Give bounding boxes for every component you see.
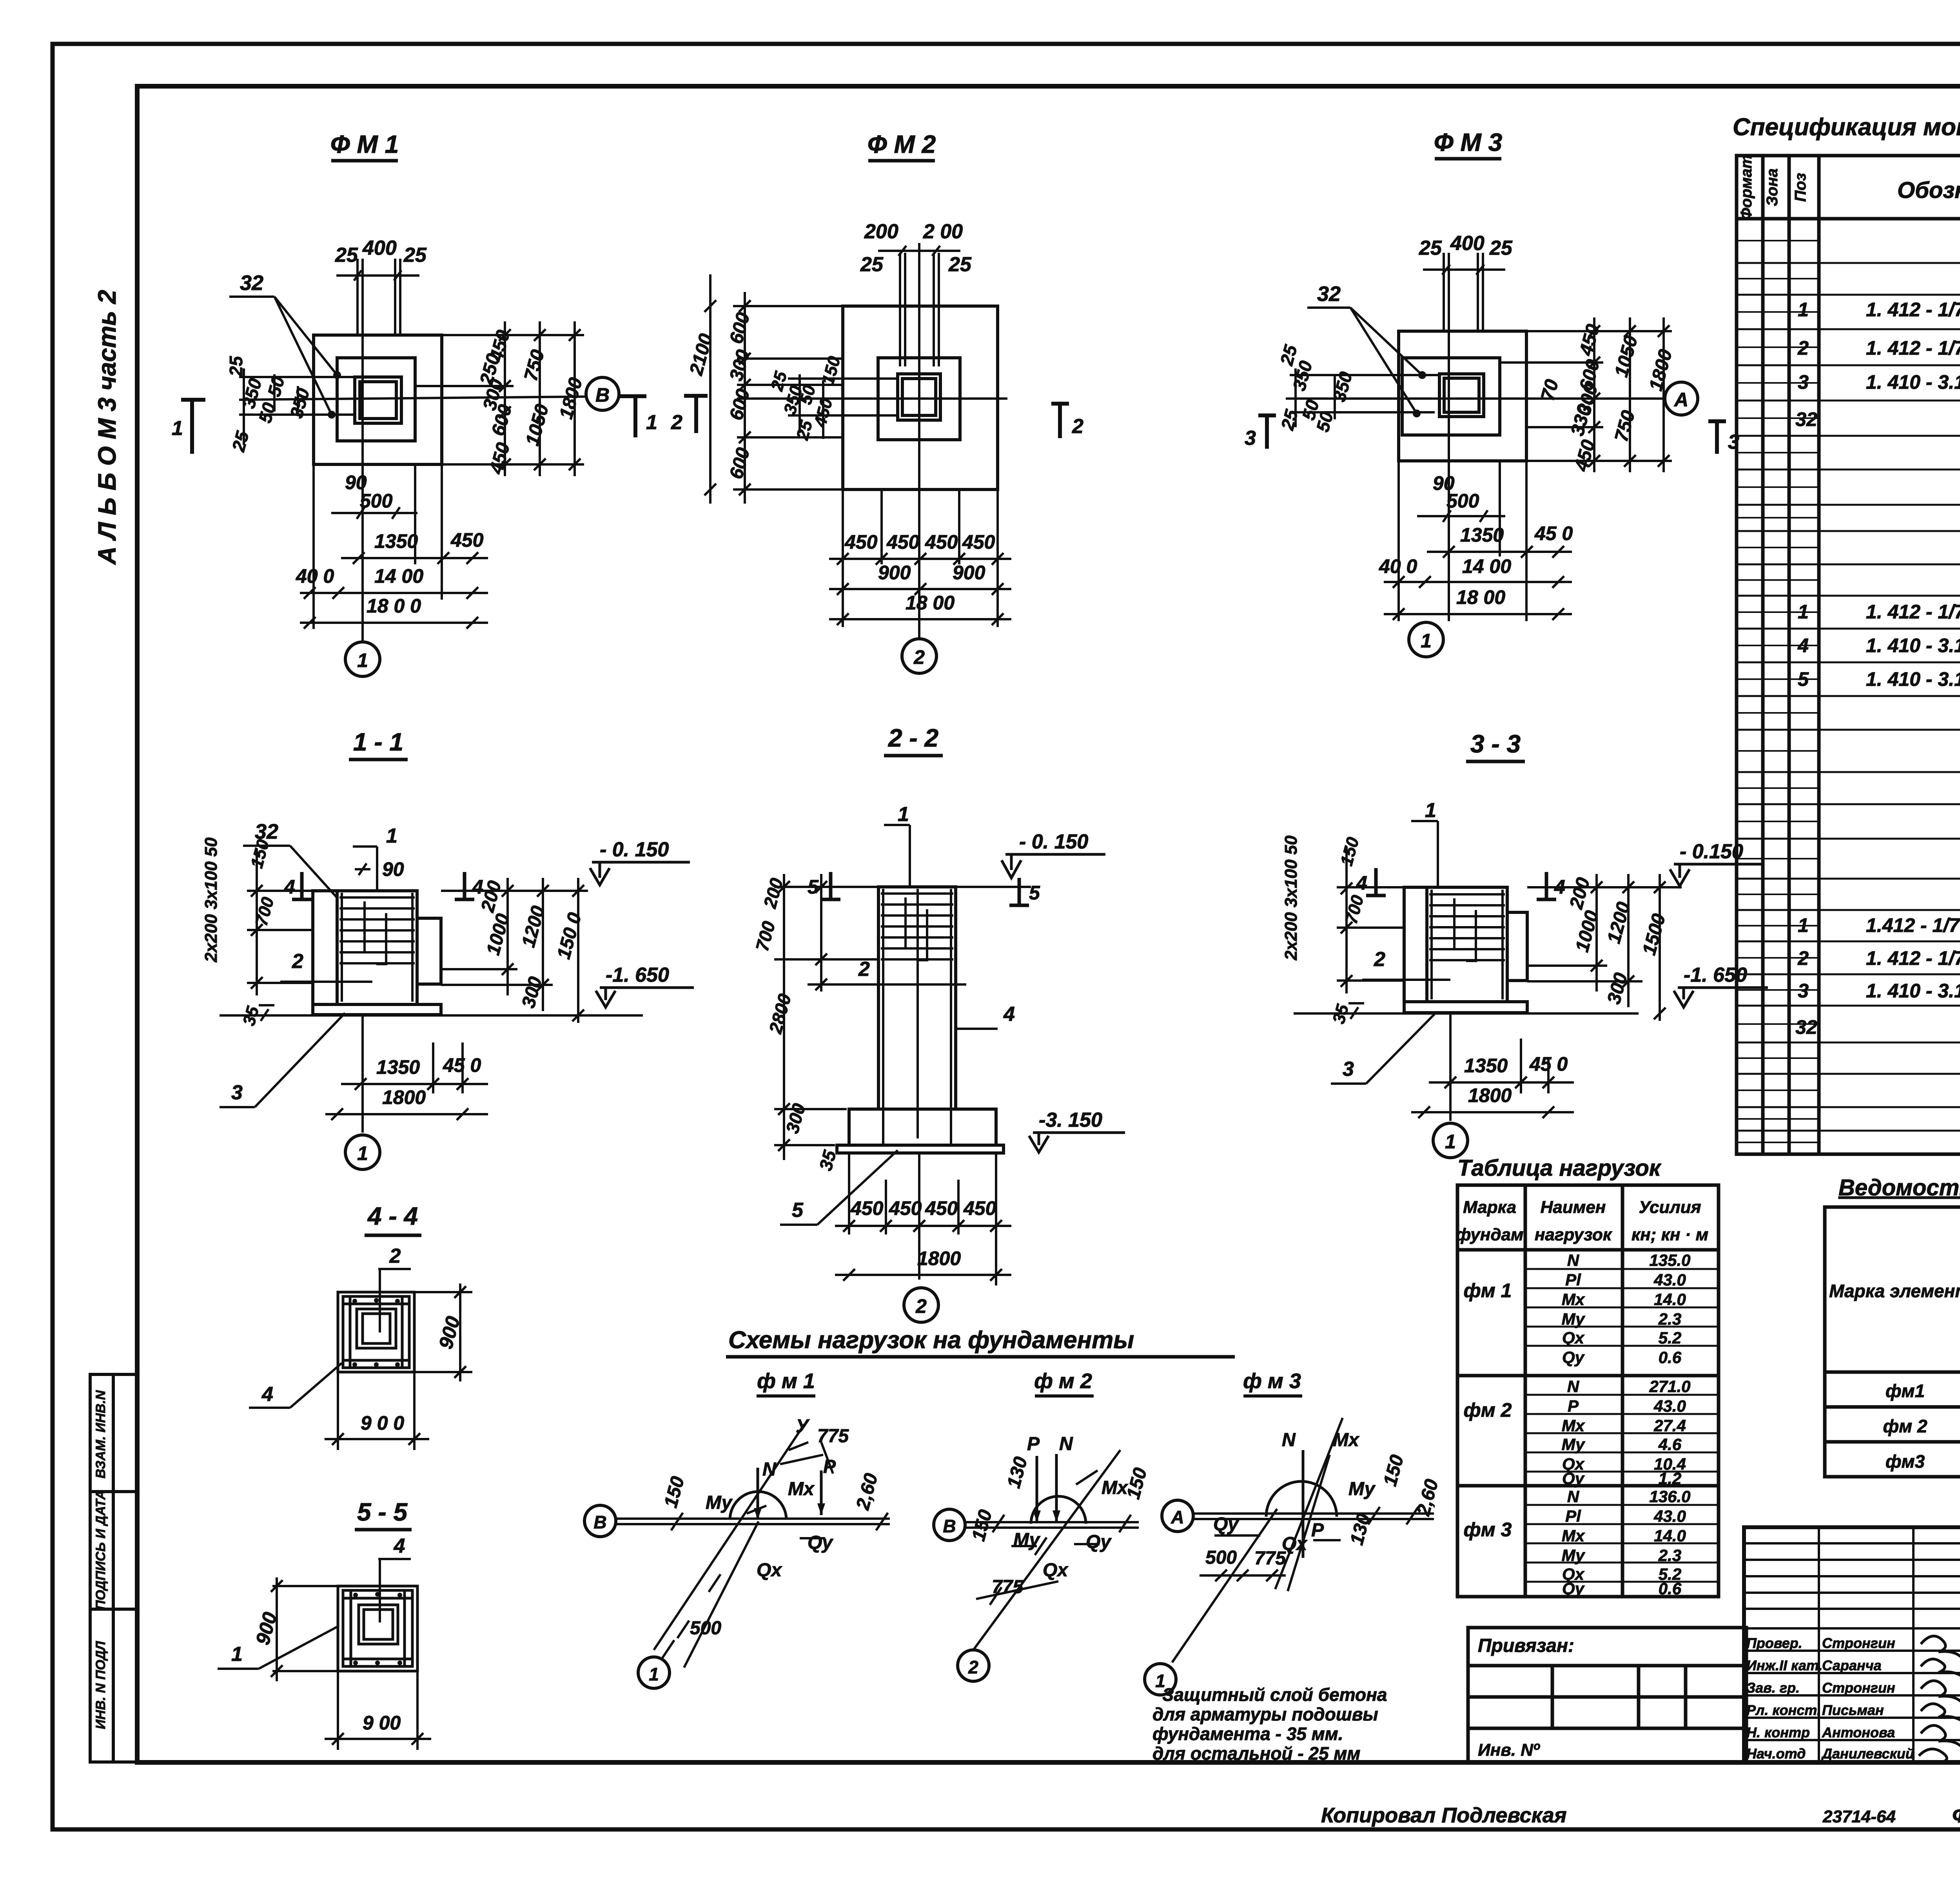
plan FM2 inner small dims cluster bbox=[767, 354, 844, 442]
svg-text:32: 32 bbox=[1795, 1016, 1817, 1038]
svg-text:Мх: Мх bbox=[1562, 1416, 1585, 1435]
svg-text:Стронгин: Стронгин bbox=[1822, 1680, 1895, 1696]
svg-text:1. 412 - 1/72 - В. 3 - 100: 1. 412 - 1/72 - В. 3 - 100 bbox=[1866, 947, 1960, 969]
svg-text:-1. 650: -1. 650 bbox=[606, 964, 669, 986]
scheme FM2 P N arrows bbox=[1037, 1454, 1056, 1522]
svg-text:775: 775 bbox=[817, 1426, 849, 1447]
svg-text:300: 300 bbox=[726, 347, 754, 383]
svg-text:Qу: Qу bbox=[808, 1532, 833, 1553]
section 2-2 bottom extension lines bbox=[849, 1153, 996, 1285]
svg-text:18 0 0: 18 0 0 bbox=[367, 595, 421, 617]
scheme FM2 axis double line bbox=[965, 1522, 1139, 1528]
svg-text:Qх: Qх bbox=[1043, 1560, 1069, 1581]
section 5-5 left dim 900 bbox=[271, 1577, 338, 1681]
svg-text:Формат: Формат bbox=[1738, 155, 1755, 220]
svg-text:1: 1 bbox=[357, 649, 368, 671]
svg-text:P: P bbox=[823, 1456, 836, 1477]
svg-text:0.6: 0.6 bbox=[1659, 1348, 1682, 1367]
plan FM1 bolt dimensions 25 400 25 bbox=[335, 237, 427, 266]
vedomost table grid bbox=[1825, 1207, 1960, 1477]
svg-text:Му: Му bbox=[1013, 1530, 1041, 1550]
scheme FM3 labels bbox=[1205, 1430, 1443, 1569]
plan FM1 bottom extension lines bbox=[314, 464, 442, 629]
svg-text:500: 500 bbox=[1205, 1547, 1237, 1568]
svg-text:775: 775 bbox=[1254, 1548, 1286, 1569]
svg-text:450: 450 bbox=[963, 1197, 996, 1219]
svg-text:45 0: 45 0 bbox=[1534, 522, 1573, 544]
svg-text:N: N bbox=[762, 1459, 777, 1480]
load table grid bbox=[1457, 1185, 1719, 1597]
svg-text:32: 32 bbox=[240, 271, 263, 295]
svg-text:1: 1 bbox=[357, 1142, 368, 1164]
svg-text:5: 5 bbox=[1029, 882, 1040, 904]
svg-text:фм 2: фм 2 bbox=[1464, 1399, 1512, 1421]
scheme FM2 ticks bbox=[976, 1515, 1131, 1605]
svg-text:1: 1 bbox=[649, 1664, 659, 1684]
svg-text:1800: 1800 bbox=[555, 375, 586, 421]
svg-text:1. 410 - 3.1 - 01: 1. 410 - 3.1 - 01 bbox=[1866, 634, 1960, 656]
section 2-2 ground line bbox=[815, 886, 1031, 888]
svg-text:ф м 3: ф м 3 bbox=[1243, 1369, 1301, 1393]
svg-text:Му: Му bbox=[706, 1492, 733, 1513]
section 2-2 rebar cage bbox=[881, 889, 953, 1144]
plan FM3 section mark right bbox=[1708, 421, 1726, 454]
svg-text:Р: Р bbox=[1311, 1520, 1324, 1541]
svg-text:фундам: фундам bbox=[1455, 1225, 1523, 1244]
svg-text:135.0: 135.0 bbox=[1649, 1251, 1690, 1269]
plan FM2 bottom dim 450x4 bbox=[829, 553, 1011, 565]
svg-text:Письман: Письман bbox=[1822, 1702, 1884, 1718]
scheme FM3 moment arc bbox=[1266, 1481, 1337, 1517]
svg-text:2.3: 2.3 bbox=[1658, 1310, 1681, 1328]
svg-text:23714-64: 23714-64 bbox=[1822, 1807, 1896, 1826]
svg-text:2: 2 bbox=[389, 1245, 401, 1267]
svg-text:4 - 4: 4 - 4 bbox=[367, 1202, 418, 1230]
load table data fm1 bbox=[1464, 1251, 1691, 1367]
svg-text:600: 600 bbox=[726, 386, 754, 422]
plan FM2 anchor bolts bbox=[878, 246, 960, 366]
section 5-5 rebar dots bbox=[353, 1592, 402, 1665]
svg-text:Мх: Мх bbox=[1333, 1430, 1360, 1450]
svg-text:3 - 3: 3 - 3 bbox=[1470, 730, 1521, 758]
svg-text:В: В bbox=[593, 1512, 606, 1532]
section 3-3 mark 4 left bbox=[1366, 868, 1386, 896]
svg-text:25: 25 bbox=[860, 253, 884, 276]
plan FM3 centerlines bbox=[1286, 331, 1664, 621]
svg-text:25: 25 bbox=[335, 244, 358, 266]
svg-text:2: 2 bbox=[1374, 948, 1385, 971]
svg-text:1.2: 1.2 bbox=[1659, 1469, 1681, 1488]
svg-text:400: 400 bbox=[1450, 232, 1485, 255]
svg-text:Саранча: Саранча bbox=[1822, 1657, 1882, 1673]
plan FM1 grid circle B bbox=[586, 377, 619, 410]
svg-text:Провер.: Провер. bbox=[1746, 1635, 1802, 1651]
plan FM2 centerlines bbox=[737, 243, 1007, 639]
svg-text:1800: 1800 bbox=[917, 1247, 961, 1269]
svg-text:Qу: Qу bbox=[1562, 1469, 1585, 1488]
scheme FM3 Mx diagonal bbox=[1275, 1418, 1343, 1589]
svg-text:Qу: Qу bbox=[1213, 1514, 1239, 1535]
svg-text:4: 4 bbox=[1797, 634, 1809, 656]
plan FM2 left dim chain 600/300/600/600 bbox=[704, 274, 843, 504]
svg-text:600: 600 bbox=[726, 445, 754, 481]
plan FM2 section mark right bbox=[1051, 404, 1069, 438]
svg-text:200: 200 bbox=[864, 220, 898, 243]
svg-text:150: 150 bbox=[660, 1474, 688, 1510]
svg-text:Му: Му bbox=[1562, 1310, 1586, 1328]
svg-text:3: 3 bbox=[231, 1081, 243, 1104]
svg-text:450: 450 bbox=[486, 440, 514, 476]
section 2-2 axis circle 2 bbox=[904, 1288, 938, 1322]
svg-text:1800: 1800 bbox=[382, 1086, 426, 1108]
svg-text:43.0: 43.0 bbox=[1653, 1271, 1686, 1289]
svg-text:Марка: Марка bbox=[1463, 1198, 1516, 1217]
svg-text:35: 35 bbox=[239, 1004, 263, 1028]
svg-text:Ф М 1: Ф М 1 bbox=[330, 130, 399, 158]
svg-text:N: N bbox=[1282, 1430, 1296, 1450]
plan FM2 axis circle 2 bbox=[902, 639, 936, 673]
svg-text:9 0 0: 9 0 0 bbox=[361, 1412, 404, 1434]
section 3-3 ground line bbox=[1294, 1012, 1639, 1015]
plan FM1 anchor bolts bbox=[336, 259, 419, 335]
svg-text:N: N bbox=[1059, 1434, 1073, 1454]
svg-text:P: P bbox=[1568, 1397, 1579, 1415]
section 4-4 right dim 900 bbox=[414, 1283, 472, 1381]
svg-text:фм 1: фм 1 bbox=[1464, 1280, 1512, 1302]
plan FM1 centerlines bbox=[239, 335, 586, 642]
svg-text:150: 150 bbox=[1337, 835, 1363, 868]
plan FM1 bottom dim 90/500 bbox=[331, 507, 417, 519]
plan FM2 footing outline bbox=[843, 306, 998, 489]
svg-text:3: 3 bbox=[1798, 371, 1809, 393]
svg-text:4: 4 bbox=[261, 1383, 273, 1406]
section 1-1 axis circle 1 bbox=[345, 1135, 380, 1169]
vedomost header texts bbox=[1829, 1210, 1960, 1367]
section 3-3 bottom dims bbox=[1411, 1013, 1574, 1121]
scheme FM2 labels bbox=[968, 1434, 1151, 1597]
spec table section FM1 texts bbox=[1795, 235, 1960, 498]
svg-text:700: 700 bbox=[751, 919, 779, 954]
plan FM1 section mark left bbox=[181, 400, 205, 454]
signature names bbox=[1746, 1635, 1914, 1762]
svg-text:Поз: Поз bbox=[1792, 173, 1809, 202]
svg-text:500: 500 bbox=[360, 490, 393, 512]
svg-text:1000: 1000 bbox=[483, 912, 514, 957]
svg-text:25: 25 bbox=[1489, 237, 1513, 259]
svg-text:45 0: 45 0 bbox=[1529, 1053, 1568, 1075]
svg-text:0.6: 0.6 bbox=[1659, 1579, 1682, 1598]
svg-text:2100: 2100 bbox=[686, 332, 717, 378]
svg-text:1200: 1200 bbox=[518, 904, 549, 950]
section 4-4 column plan bbox=[338, 1292, 414, 1372]
svg-text:450: 450 bbox=[962, 531, 995, 553]
title block main stamp grid bbox=[1744, 1527, 1960, 1762]
scheme FM3 N vertical bbox=[1302, 1450, 1305, 1558]
svg-text:130: 130 bbox=[1003, 1454, 1031, 1490]
svg-text:1: 1 bbox=[1798, 914, 1809, 936]
svg-text:2 00: 2 00 bbox=[923, 220, 963, 243]
svg-text:Нач.отд: Нач.отд bbox=[1746, 1746, 1806, 1762]
scheme FM2 grid circle B bbox=[934, 1509, 965, 1541]
svg-text:-1. 650: -1. 650 bbox=[1684, 964, 1747, 986]
svg-text:130: 130 bbox=[1346, 1511, 1374, 1547]
svg-text:А: А bbox=[1673, 389, 1688, 411]
svg-text:- 0.150: - 0.150 bbox=[1680, 840, 1743, 863]
svg-text:Мх: Мх bbox=[1562, 1290, 1585, 1309]
svg-text:2х200 3х100 50: 2х200 3х100 50 bbox=[1281, 835, 1301, 961]
svg-text:450: 450 bbox=[925, 531, 958, 553]
svg-text:43.0: 43.0 bbox=[1653, 1397, 1686, 1415]
section 3-3 right dims 200/1000/1200/1500/300 bbox=[1527, 874, 1682, 1021]
section 4-4 rebar dots bbox=[352, 1298, 400, 1367]
svg-text:1: 1 bbox=[1798, 299, 1809, 321]
svg-text:750: 750 bbox=[1611, 408, 1639, 444]
load table data fm2 bbox=[1464, 1377, 1691, 1488]
svg-text:1: 1 bbox=[386, 825, 397, 847]
svg-text:2: 2 bbox=[1797, 947, 1809, 969]
svg-text:900: 900 bbox=[878, 562, 911, 584]
left margin stamp cells bbox=[90, 1374, 137, 1762]
svg-text:Мх: Мх bbox=[1562, 1526, 1585, 1545]
plan FM2 section mark left bbox=[684, 396, 708, 433]
protective layer note bbox=[1152, 1684, 1387, 1764]
svg-text:900: 900 bbox=[953, 562, 985, 584]
scheme FM3 ticks on axis bbox=[1214, 1507, 1418, 1540]
svg-text:1: 1 bbox=[898, 803, 909, 826]
svg-text:Qу: Qу bbox=[1086, 1532, 1112, 1552]
svg-text:фм 2: фм 2 bbox=[1883, 1416, 1927, 1436]
svg-text:136.0: 136.0 bbox=[1649, 1487, 1690, 1506]
load table data fm3 bbox=[1464, 1487, 1691, 1598]
svg-text:5 - 5: 5 - 5 bbox=[357, 1498, 408, 1526]
svg-text:- 0. 150: - 0. 150 bbox=[600, 838, 669, 861]
svg-text:Зав. гр.: Зав. гр. bbox=[1746, 1680, 1800, 1696]
svg-text:450: 450 bbox=[844, 531, 878, 553]
svg-text:Н. контр: Н. контр bbox=[1746, 1724, 1810, 1740]
svg-text:Усилия: Усилия bbox=[1639, 1198, 1701, 1217]
svg-text:18 00: 18 00 bbox=[1456, 586, 1505, 608]
svg-text:18 00: 18 00 bbox=[906, 592, 955, 614]
plan FM1 section mark right bbox=[620, 396, 646, 437]
scheme FM2 Mx diagonal bbox=[973, 1450, 1120, 1650]
svg-text:4: 4 bbox=[1003, 1003, 1015, 1026]
scheme FM1 Y diagonal with ticks bbox=[654, 1424, 833, 1650]
svg-text:Защитный слой бетона: Защитный слой бетона bbox=[1162, 1684, 1387, 1705]
plan FM2 bottom dim 900 900 bbox=[829, 583, 1011, 595]
svg-text:Рл. конст.: Рл. конст. bbox=[1746, 1702, 1821, 1718]
svg-text:1000: 1000 bbox=[1572, 908, 1602, 954]
plan FM1 footing outline bbox=[314, 335, 442, 464]
plan FM1 left small dimension cluster bbox=[226, 355, 314, 454]
scheme FM1 axis circle 1 bbox=[638, 1657, 670, 1688]
svg-text:450: 450 bbox=[889, 1197, 922, 1219]
scheme FM3 axis double line bbox=[1193, 1514, 1434, 1519]
svg-text:450: 450 bbox=[886, 531, 920, 553]
svg-text:1200: 1200 bbox=[1603, 900, 1634, 946]
svg-text:500: 500 bbox=[690, 1618, 721, 1639]
svg-text:200: 200 bbox=[1566, 875, 1594, 911]
svg-text:25: 25 bbox=[403, 244, 427, 266]
svg-text:1. 410 - 3.1 - 12: 1. 410 - 3.1 - 12 bbox=[1866, 980, 1960, 1002]
svg-text:1: 1 bbox=[1445, 1131, 1456, 1153]
section 2-2 left dims 200/700/2800/300/35 bbox=[774, 874, 966, 1160]
svg-text:1. 410 - 3.1 - 12: 1. 410 - 3.1 - 12 bbox=[1866, 371, 1960, 393]
svg-text:фм3: фм3 bbox=[1886, 1451, 1925, 1472]
svg-text:2: 2 bbox=[858, 958, 870, 981]
svg-text:1350: 1350 bbox=[376, 1056, 420, 1078]
svg-text:1: 1 bbox=[172, 417, 183, 440]
plan FM1 bottom dim 400/1400 bbox=[300, 587, 488, 599]
svg-text:1350: 1350 bbox=[374, 530, 418, 552]
svg-text:43.0: 43.0 bbox=[1653, 1507, 1686, 1525]
svg-text:Му: Му bbox=[1562, 1546, 1586, 1564]
svg-text:750: 750 bbox=[520, 347, 548, 383]
svg-text:2: 2 bbox=[1797, 337, 1809, 359]
scheme FM1 moment arc bbox=[730, 1492, 786, 1520]
svg-text:150: 150 bbox=[1123, 1465, 1151, 1501]
section 3-3 rebar cage bbox=[1429, 890, 1505, 999]
svg-text:32: 32 bbox=[1317, 282, 1341, 306]
scheme FM3 dim line 500/775 bbox=[1200, 1570, 1286, 1581]
plan FM3 left small dimension cluster bbox=[1276, 342, 1356, 434]
svg-text:ПОДПИСЬ И ДАТА: ПОДПИСЬ И ДАТА bbox=[93, 1490, 108, 1610]
scheme FM3 grid circle A bbox=[1162, 1500, 1193, 1532]
svg-text:45 0: 45 0 bbox=[443, 1054, 481, 1076]
svg-text:40 0: 40 0 bbox=[296, 565, 334, 587]
svg-text:Му: Му bbox=[1562, 1435, 1586, 1454]
svg-text:2: 2 bbox=[913, 646, 925, 668]
scheme FM3 second diagonal bbox=[1288, 1455, 1330, 1591]
scheme FM1 Qx diagonal bbox=[684, 1521, 759, 1668]
svg-text:Мх: Мх bbox=[788, 1479, 815, 1499]
svg-text:775: 775 bbox=[992, 1577, 1024, 1597]
section 1-1 pedestal outline bbox=[313, 891, 441, 1015]
section 2-2 bottom dim 1800 bbox=[835, 1269, 1011, 1281]
vedomost data rows bbox=[1883, 1381, 1960, 1472]
scheme FM2 axis circle 2 bbox=[958, 1650, 989, 1681]
spec table section FM3 texts bbox=[1795, 849, 1960, 1102]
svg-text:Му: Му bbox=[1348, 1479, 1376, 1499]
svg-text:Qу: Qу bbox=[1562, 1579, 1585, 1598]
svg-text:Привязан:: Привязан: bbox=[1478, 1635, 1574, 1656]
svg-text:25: 25 bbox=[228, 428, 253, 454]
section 1-1 mark 4 left bbox=[292, 872, 312, 899]
svg-text:27.4: 27.4 bbox=[1653, 1416, 1686, 1435]
svg-text:25: 25 bbox=[948, 253, 972, 276]
scheme FM1 axis double line bbox=[616, 1519, 890, 1524]
scheme FM1 P arrow bbox=[820, 1470, 823, 1515]
svg-text:330: 330 bbox=[1567, 402, 1595, 438]
svg-text:2,60: 2,60 bbox=[1413, 1477, 1443, 1518]
svg-text:Марка элемента: Марка элемента bbox=[1829, 1281, 1960, 1301]
svg-text:1: 1 bbox=[1798, 601, 1809, 623]
spec table left columns half-pitch lines bbox=[1737, 241, 1819, 1142]
svg-text:1. 410 - 3.1 - 12: 1. 410 - 3.1 - 12 bbox=[1866, 668, 1960, 690]
load table header bbox=[1455, 1198, 1708, 1244]
svg-text:600: 600 bbox=[726, 310, 754, 346]
svg-text:Pl: Pl bbox=[1565, 1271, 1581, 1289]
svg-text:Ф М 2: Ф М 2 bbox=[867, 130, 936, 158]
section 1-1 bottom dims bbox=[325, 1015, 488, 1133]
plan FM3 bottom dim 90/500 bbox=[1417, 510, 1505, 522]
svg-text:450: 450 bbox=[850, 1197, 884, 1219]
svg-text:1: 1 bbox=[646, 411, 657, 434]
svg-text:25: 25 bbox=[1419, 237, 1442, 259]
svg-text:2: 2 bbox=[671, 411, 682, 434]
svg-text:Ведомость расхода стали: Ведомость расхода стали на элемент, кг bbox=[1838, 1175, 1960, 1200]
svg-text:40 0: 40 0 bbox=[1379, 555, 1417, 577]
svg-text:2: 2 bbox=[292, 950, 303, 973]
section 3-3 left dims bbox=[1281, 835, 1368, 1026]
plan FM3 section mark left bbox=[1258, 415, 1276, 449]
plan FM3 axis circle 1 bbox=[1409, 622, 1443, 657]
svg-text:1800: 1800 bbox=[1468, 1084, 1512, 1106]
svg-text:А Л Ь Б О М 3 часть 2: А Л Ь Б О М 3 часть 2 bbox=[93, 290, 121, 566]
plan FM3 bottom dim 1800 bbox=[1384, 608, 1572, 620]
svg-text:35: 35 bbox=[1329, 1002, 1352, 1026]
svg-text:-3. 150: -3. 150 bbox=[1039, 1109, 1102, 1131]
svg-text:32: 32 bbox=[1795, 408, 1817, 430]
svg-text:- 0. 150: - 0. 150 bbox=[1019, 830, 1088, 853]
svg-text:Таблица нагрузок: Таблица нагрузок bbox=[1457, 1155, 1662, 1181]
svg-text:Зона: Зона bbox=[1764, 169, 1781, 207]
section 5-5 bottom dim 900 bbox=[325, 1671, 431, 1750]
svg-text:2: 2 bbox=[915, 1295, 927, 1317]
svg-text:14.0: 14.0 bbox=[1654, 1290, 1686, 1309]
section 2-2 mark 5 right bbox=[1009, 878, 1029, 905]
plan FM1 bottom dim 1350/450 bbox=[341, 552, 488, 564]
svg-text:1. 412 - 1/77 - В.3 - 020: 1. 412 - 1/77 - В.3 - 020 bbox=[1866, 299, 1960, 321]
svg-text:Qу: Qу bbox=[1562, 1348, 1585, 1367]
svg-text:Стронгин: Стронгин bbox=[1822, 1635, 1895, 1651]
svg-text:271.0: 271.0 bbox=[1649, 1377, 1690, 1396]
plan FM3 grid circle A bbox=[1665, 382, 1698, 415]
svg-text:450: 450 bbox=[925, 1197, 958, 1219]
section 3-3 mark 4 right bbox=[1537, 872, 1556, 899]
svg-text:Pl: Pl bbox=[1565, 1507, 1581, 1525]
spec table header texts bbox=[1738, 155, 1960, 220]
svg-text:5: 5 bbox=[792, 1199, 804, 1222]
svg-text:2: 2 bbox=[1072, 415, 1083, 438]
svg-text:450: 450 bbox=[450, 529, 484, 551]
svg-text:2.3: 2.3 bbox=[1658, 1546, 1681, 1564]
scheme FM1 grid circle B bbox=[584, 1505, 616, 1537]
svg-text:14.0: 14.0 bbox=[1654, 1526, 1686, 1545]
svg-text:150 0: 150 0 bbox=[553, 910, 585, 961]
svg-text:5.2: 5.2 bbox=[1659, 1329, 1681, 1347]
svg-text:2,60: 2,60 bbox=[852, 1471, 882, 1512]
svg-text:1350: 1350 bbox=[1460, 524, 1504, 546]
plan FM1 bottom dim 1800 bbox=[300, 617, 488, 629]
svg-text:Наимен: Наимен bbox=[1541, 1198, 1606, 1217]
svg-text:2х200 3х100 50: 2х200 3х100 50 bbox=[201, 837, 221, 963]
svg-text:N: N bbox=[1567, 1377, 1580, 1396]
svg-text:Инв. Nº: Инв. Nº bbox=[1478, 1740, 1540, 1760]
section 1-1 mark 4 right bbox=[455, 872, 474, 899]
svg-text:ФОРМАТ А2: ФОРМАТ А2 bbox=[1952, 1804, 1960, 1827]
scheme FM1 N arrow bbox=[757, 1468, 759, 1520]
scheme FM3 axis circle 1 bbox=[1145, 1664, 1176, 1695]
svg-text:А: А bbox=[1171, 1507, 1184, 1527]
svg-text:150: 150 bbox=[247, 837, 273, 870]
svg-text:150: 150 bbox=[1379, 1452, 1408, 1488]
plan FM3 bottom dim 400/1400 bbox=[1384, 576, 1572, 588]
svg-text:1050: 1050 bbox=[522, 402, 553, 448]
svg-text:2: 2 bbox=[968, 1657, 978, 1677]
svg-text:3: 3 bbox=[1728, 431, 1739, 453]
svg-text:ф м 2: ф м 2 bbox=[1034, 1369, 1092, 1393]
svg-text:14 00: 14 00 bbox=[374, 565, 423, 587]
